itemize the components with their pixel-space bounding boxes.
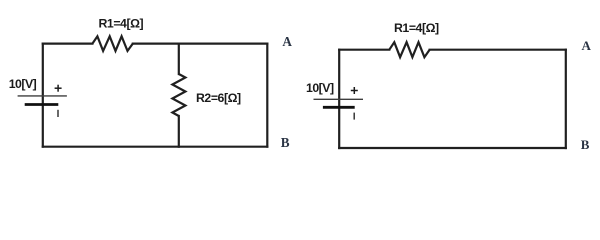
svg-text:R2=6[Ω]: R2=6[Ω] [196, 91, 241, 105]
wire: left circuit left rail (battery stem) [42, 44, 44, 147]
resistor R1 (right circuit) zigzag [389, 42, 429, 57]
wire: right circuit left rail (battery stem) [338, 50, 340, 148]
wire: R2 branch upper segment [178, 44, 180, 74]
battery V1 (left) + terminal mark [55, 85, 62, 92]
wire: left circuit top rail, right segment [133, 42, 267, 44]
wire: right circuit right rail (A to B) [565, 50, 567, 148]
battery V2 (right) bottom plate, short thick [323, 106, 355, 109]
wire: right circuit bottom rail [339, 147, 566, 149]
wire: left circuit right rail (A to B) [266, 44, 268, 147]
svg-text:A: A [282, 34, 292, 49]
battery V2 (right) + terminal mark [351, 87, 358, 94]
svg-text:R1=4[Ω]: R1=4[Ω] [99, 17, 144, 31]
wire: left circuit top rail, left segment [43, 42, 93, 44]
svg-text:B: B [581, 137, 590, 152]
battery V2 (right) negative-side tick [353, 113, 355, 120]
wire: right circuit top rail, right segment [430, 49, 566, 51]
wire: R2 branch lower segment [178, 116, 180, 147]
svg-text:10[V]: 10[V] [306, 81, 334, 95]
svg-text:A: A [582, 38, 592, 53]
svg-text:10[V]: 10[V] [9, 77, 37, 91]
battery V1 (left) negative-side tick [57, 110, 59, 117]
wire: right circuit top rail, left segment [339, 49, 389, 51]
resistor R1 (left circuit) zigzag [92, 36, 132, 51]
battery V1 (left) top plate, long thin [18, 95, 67, 97]
svg-text:R1=4[Ω]: R1=4[Ω] [394, 21, 439, 35]
resistor R2 (left circuit) vertical zigzag [172, 74, 185, 116]
svg-text:B: B [281, 135, 290, 150]
battery V2 (right) top plate, long thin [314, 98, 364, 100]
wire: left circuit bottom rail [43, 146, 267, 148]
battery V1 (left) bottom plate, short thick [25, 103, 59, 106]
